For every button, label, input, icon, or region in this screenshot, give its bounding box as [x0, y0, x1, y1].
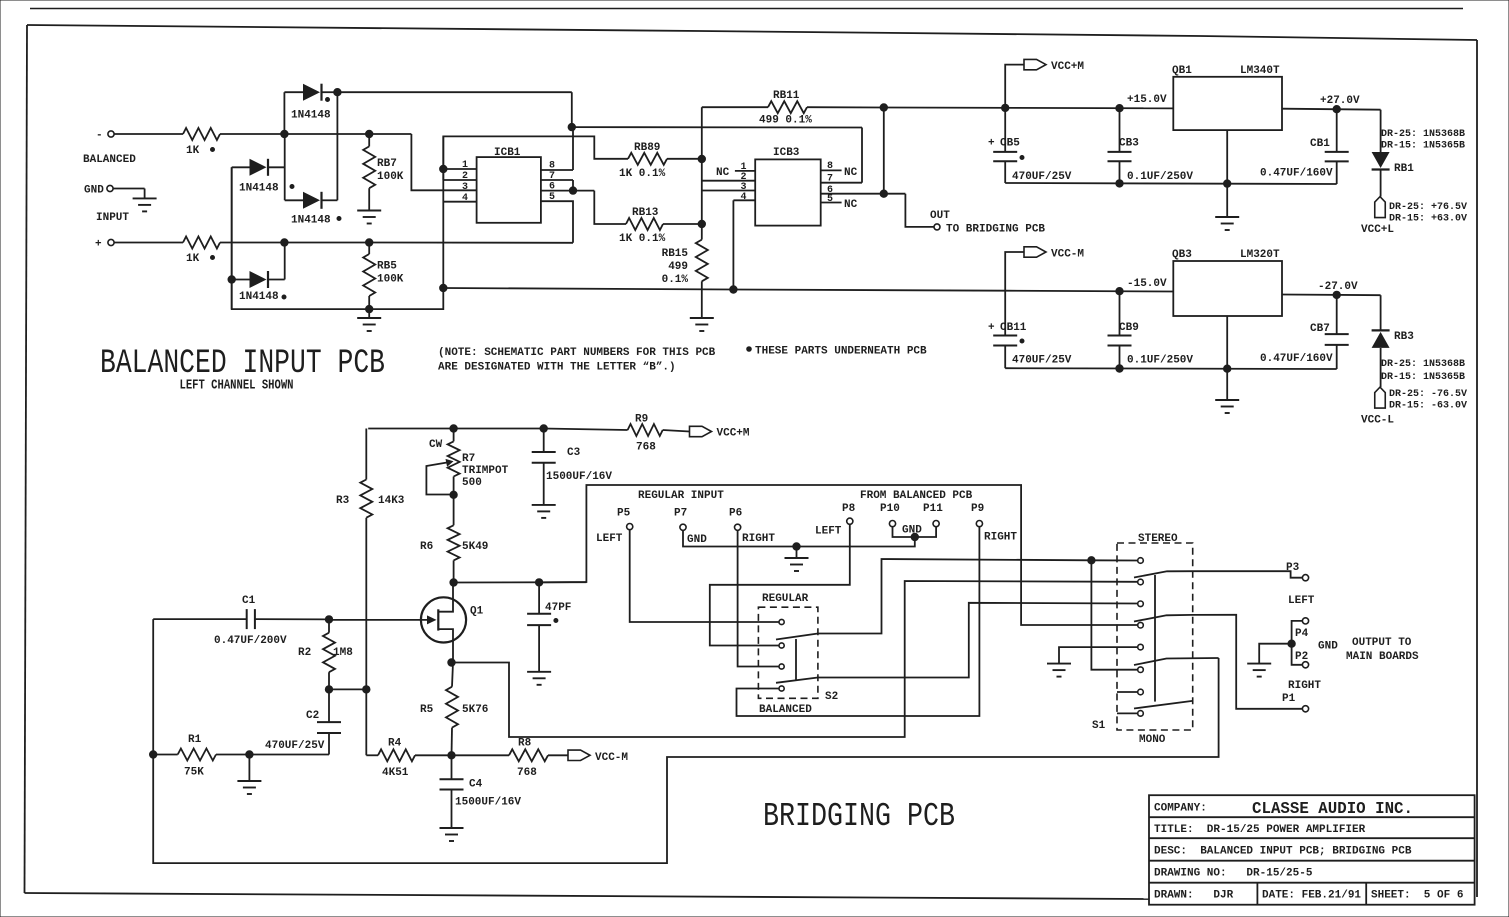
capacitor C4 1500UF/16V — [440, 755, 522, 828]
svg-text:C4: C4 — [469, 779, 483, 791]
svg-text:CB7: CB7 — [1310, 323, 1330, 335]
S1 contact 4 — [1138, 622, 1144, 628]
svg-text:R8: R8 — [518, 738, 532, 750]
ICB3 pin8 NC — [821, 161, 858, 179]
resistor 1K (minus input) — [183, 128, 220, 157]
svg-text:DR-15: +63.0V: DR-15: +63.0V — [1389, 214, 1467, 225]
ICB1 pin1 — [440, 160, 477, 173]
svg-text:5: 5 — [549, 192, 555, 203]
svg-text:TITLE: DR-15/25 POWER AMPLIFI: TITLE: DR-15/25 POWER AMPLIFIER — [1154, 824, 1366, 836]
svg-text:1N4148: 1N4148 — [291, 110, 331, 122]
ICB3 pin4 — [733, 192, 755, 203]
svg-text:THESE PARTS UNDERNEATH PCB: THESE PARTS UNDERNEATH PCB — [755, 346, 927, 358]
svg-text:-: - — [96, 130, 103, 142]
wire S1 arm2 to P3 — [1193, 571, 1303, 578]
wire feedback loop bottom — [153, 658, 1218, 863]
svg-text:STEREO: STEREO — [1138, 533, 1178, 545]
ground (input) — [133, 189, 157, 212]
svg-text:GND: GND — [687, 534, 707, 546]
plug P3 — [1286, 562, 1315, 607]
svg-text:1500UF/16V: 1500UF/16V — [546, 471, 612, 483]
svg-text:0.1UF/250V: 0.1UF/250V — [1127, 355, 1193, 367]
svg-text:R9: R9 — [635, 414, 648, 426]
wire - input to diodes — [220, 130, 411, 137]
svg-text:GND: GND — [84, 185, 104, 197]
wire to ICB1 pin3 — [411, 134, 476, 190]
svg-text:P6: P6 — [729, 508, 742, 520]
svg-text:470UF/25V: 470UF/25V — [1012, 171, 1072, 183]
svg-text:5K76: 5K76 — [462, 704, 488, 716]
svg-text:RB1: RB1 — [1394, 163, 1414, 175]
title block frame — [1149, 795, 1475, 905]
capacitor CB5 470UF/25V — [988, 108, 1072, 183]
resistor R8 768 — [452, 738, 569, 780]
svg-text:ARE DESIGNATED WITH THE LETTER: ARE DESIGNATED WITH THE LETTER “B”.) — [438, 362, 676, 374]
wire + input — [114, 242, 183, 244]
svg-text:NC: NC — [716, 167, 730, 179]
S1 contact7 stub — [1117, 691, 1138, 693]
svg-text:RB3: RB3 — [1394, 331, 1414, 343]
wire C1 left leg — [152, 619, 154, 754]
svg-text:+: + — [988, 138, 995, 150]
svg-text:FROM BALANCED PCB: FROM BALANCED PCB — [860, 490, 973, 502]
ICB3 pin6 — [821, 185, 906, 197]
ground (RB5) — [357, 318, 381, 331]
resistor RB89 1K 0.1% — [619, 142, 706, 180]
switch S2 box — [758, 593, 838, 716]
transistor Q1 — [421, 583, 484, 663]
svg-text:VCC+L: VCC+L — [1361, 224, 1394, 236]
svg-text:OUTPUT TO: OUTPUT TO — [1352, 637, 1412, 649]
op-amp ICB3 — [755, 147, 821, 226]
ground (RB7) — [357, 188, 381, 223]
S2 arm balanced — [776, 678, 818, 683]
svg-text:0.47UF/160V: 0.47UF/160V — [1260, 168, 1333, 180]
wire D1 cathode to column — [337, 92, 571, 200]
trimpot R7 500 — [426, 429, 508, 499]
svg-text:P2: P2 — [1295, 651, 1308, 663]
svg-text:4: 4 — [462, 193, 468, 204]
svg-text:5K49: 5K49 — [462, 541, 488, 553]
svg-text:ICB3: ICB3 — [773, 147, 800, 159]
title block desc — [1154, 846, 1412, 858]
svg-text:RB13: RB13 — [632, 207, 659, 219]
wire R2-R3 tie — [325, 686, 370, 693]
S1 contact 3 — [1138, 601, 1144, 607]
svg-text:500: 500 — [462, 477, 482, 489]
svg-text:2: 2 — [462, 171, 468, 182]
svg-text:NC: NC — [844, 199, 858, 211]
svg-text:P3: P3 — [1286, 562, 1300, 574]
title block drawing no — [1154, 868, 1313, 880]
svg-text:REGULAR: REGULAR — [762, 593, 809, 605]
svg-text:4K51: 4K51 — [382, 767, 409, 779]
wire supply1 bottom rail — [1005, 180, 1336, 188]
plug P6 — [729, 508, 775, 546]
ground (P7) — [785, 547, 809, 572]
svg-text:DRAWING NO: DR-15/25-5: DRAWING NO: DR-15/25-5 — [1154, 868, 1313, 880]
svg-text:C1: C1 — [242, 595, 256, 607]
svg-text:1K: 1K — [186, 253, 200, 265]
svg-text:P8: P8 — [842, 503, 856, 515]
svg-text:RB11: RB11 — [773, 90, 800, 102]
wire bus1 lower — [232, 136, 444, 309]
ground (output) — [1247, 664, 1271, 677]
ground (QB1) — [1215, 130, 1239, 230]
svg-text:DR-15: 1N5365B: DR-15: 1N5365B — [1381, 141, 1465, 152]
wire P7 gnd — [683, 530, 800, 550]
svg-text:+: + — [988, 322, 995, 334]
svg-text:LEFT: LEFT — [815, 526, 842, 538]
capacitor CB1 0.47UF/160V — [1260, 109, 1349, 184]
plug P4 — [1292, 618, 1309, 644]
svg-text:S2: S2 — [825, 691, 838, 703]
wire RB5 bottom / node bus1 — [366, 296, 373, 318]
wire +15 rail — [884, 104, 1174, 112]
wire top rail bridging — [368, 425, 627, 432]
svg-text:CW: CW — [429, 439, 443, 451]
wire D3 anode column — [284, 134, 286, 200]
sheet outer top line — [30, 8, 1463, 10]
svg-text:OUT: OUT — [930, 210, 950, 222]
svg-text:CB5: CB5 — [1000, 138, 1020, 150]
capacitor C2 470UF/25V — [265, 689, 341, 754]
ICB3 pin7 — [821, 128, 862, 185]
plug P10 — [880, 503, 900, 527]
wire P9 to S2 — [737, 527, 980, 716]
wire to ICB1 pin5 — [541, 201, 573, 243]
svg-text:RIGHT: RIGHT — [1288, 680, 1321, 692]
resistor R4 4K51 — [366, 689, 451, 779]
svg-text:P4: P4 — [1295, 628, 1309, 640]
ICB1 pin8 — [541, 127, 573, 171]
input + terminal — [95, 239, 114, 251]
S1 contact 7 — [1138, 689, 1144, 695]
svg-text:CB1: CB1 — [1310, 138, 1330, 150]
svg-text:-15.0V: -15.0V — [1127, 278, 1167, 290]
svg-text:1K: 1K — [186, 145, 200, 157]
resistor R2 1M8 — [298, 616, 353, 690]
regulator QB1 LM340T — [1172, 65, 1282, 130]
svg-text:100K: 100K — [377, 274, 404, 286]
S2 contact 1 — [779, 619, 784, 624]
wire RB11 to pin6 — [883, 108, 885, 194]
connector VCC+L — [1361, 170, 1394, 237]
capacitor 47PF — [527, 582, 571, 671]
svg-text:499: 499 — [668, 261, 688, 273]
ground (47PF) — [527, 672, 551, 685]
svg-text:499 0.1%: 499 0.1% — [759, 115, 812, 127]
svg-text:1K 0.1%: 1K 0.1% — [619, 168, 666, 180]
svg-text:LM340T: LM340T — [1240, 65, 1280, 77]
svg-text:0.47UF/200V: 0.47UF/200V — [214, 635, 287, 647]
title block drawn — [1154, 890, 1463, 902]
wire - input — [114, 133, 183, 135]
svg-text:COMPANY:: COMPANY: — [1154, 803, 1207, 815]
S2 contact 2 — [779, 643, 784, 648]
capacitor C3 1500UF/16V — [532, 429, 613, 505]
svg-text:MAIN BOARDS: MAIN BOARDS — [1346, 651, 1419, 663]
resistor RB13 1K 0.1% — [594, 191, 705, 245]
resistor R6 5K49 — [420, 495, 488, 583]
svg-text:(NOTE: SCHEMATIC PART NUMBERS: (NOTE: SCHEMATIC PART NUMBERS FOR THIS P… — [438, 347, 716, 359]
wire + input run — [220, 239, 573, 246]
node R4/R5/C4/R8 — [448, 752, 455, 759]
ICB1 pin7 — [541, 171, 573, 191]
svg-text:TRIMPOT: TRIMPOT — [462, 465, 509, 477]
S1 contact 8 — [1138, 711, 1144, 717]
svg-text:DRAWN: DJR: DRAWN: DJR — [1154, 890, 1234, 902]
svg-text:R6: R6 — [420, 541, 433, 553]
title BALANCED INPUT PCB — [100, 345, 385, 383]
svg-text:DR-25: +76.5V: DR-25: +76.5V — [1389, 202, 1467, 213]
svg-text:RIGHT: RIGHT — [984, 532, 1017, 544]
ICB3 pin1 NC — [716, 162, 755, 179]
label -15.0V — [1127, 278, 1167, 290]
svg-text:47PF: 47PF — [545, 602, 571, 614]
svg-text:DR-25: 1N5368B: DR-25: 1N5368B — [1381, 359, 1465, 370]
svg-text:DESC: BALANCED INPUT PCB; BRI: DESC: BALANCED INPUT PCB; BRIDGING PCB — [1154, 846, 1412, 858]
wire +27 rail — [1282, 106, 1381, 113]
wire S2 arm2 to S1 c1 — [818, 557, 1138, 634]
S1 inner link — [1154, 575, 1156, 702]
svg-text:8: 8 — [827, 161, 833, 172]
wire S1 arm4 to P1 — [1193, 615, 1303, 709]
svg-text:C2: C2 — [306, 710, 319, 722]
svg-text:VCC-M: VCC-M — [1051, 249, 1084, 261]
label +15.0V — [1127, 94, 1167, 106]
svg-text:RB15: RB15 — [662, 248, 689, 260]
connector tag VCC-M (R8) — [568, 750, 628, 764]
capacitor CB9 0.1UF/250V — [1108, 288, 1194, 369]
node bus2 dot — [440, 284, 447, 291]
svg-text:P5: P5 — [617, 508, 631, 520]
wire S2 arm4 to S1 c3 — [818, 603, 1138, 678]
svg-text:INPUT: INPUT — [96, 212, 129, 224]
ground (R1) — [237, 755, 261, 795]
ground (S1 c5) — [1047, 647, 1138, 677]
plug P7 — [674, 508, 707, 547]
svg-text:7: 7 — [549, 171, 555, 182]
connector tag VCC+M (R9) — [690, 426, 750, 439]
capacitor CB3 0.1UF/250V — [1108, 108, 1194, 183]
svg-text:1N4148: 1N4148 — [239, 183, 279, 195]
vertical x702 pin2 feed — [701, 159, 703, 224]
ICB1 pin4 — [443, 193, 476, 204]
svg-text:SHEET: 5 OF 6: SHEET: 5 OF 6 — [1371, 890, 1463, 902]
label CW — [429, 439, 443, 451]
resistor R5 5K76 — [420, 659, 488, 756]
wire Q1 drain node — [450, 579, 587, 587]
svg-text:S1: S1 — [1092, 720, 1106, 732]
diode D1 1N4148 top — [284, 84, 341, 134]
svg-text:P9: P9 — [971, 503, 984, 515]
S1 contact 2 — [1138, 579, 1144, 585]
svg-text:LEFT: LEFT — [1288, 595, 1315, 607]
svg-text:5: 5 — [827, 194, 833, 205]
svg-text:1: 1 — [462, 160, 468, 171]
S1 arm 6 — [1134, 658, 1219, 665]
svg-text:CB3: CB3 — [1119, 138, 1139, 150]
S2 contact 3 — [779, 664, 784, 669]
svg-text:1M8: 1M8 — [333, 647, 353, 659]
svg-text:RB7: RB7 — [377, 158, 397, 170]
svg-text:DR-15: 1N5365B: DR-15: 1N5365B — [1381, 372, 1465, 383]
svg-text:BALANCED: BALANCED — [83, 154, 136, 166]
svg-text:CB11: CB11 — [1000, 322, 1027, 334]
svg-text:REGULAR INPUT: REGULAR INPUT — [638, 490, 724, 502]
ICB3 pin3 — [702, 182, 755, 193]
svg-text:VCC+M: VCC+M — [717, 428, 750, 440]
wire regular-input box — [539, 485, 1137, 625]
svg-text:CB9: CB9 — [1119, 322, 1139, 334]
ICB1 pin5 — [549, 192, 555, 203]
svg-text:1K 0.1%: 1K 0.1% — [619, 233, 666, 245]
svg-text:0.1%: 0.1% — [662, 274, 689, 286]
plug P8 — [815, 503, 856, 538]
svg-text:CLASSE AUDIO INC.: CLASSE AUDIO INC. — [1252, 800, 1413, 819]
input - terminal — [96, 130, 114, 142]
S2 contact 4 — [779, 686, 784, 691]
svg-text:R7: R7 — [462, 453, 475, 465]
S1 contact 5 — [1138, 644, 1144, 650]
wire P8 to S2 — [710, 524, 850, 645]
S2 gang link — [795, 639, 797, 680]
wire R1 rail — [153, 754, 178, 756]
svg-text:Q1: Q1 — [470, 606, 484, 618]
svg-text:470UF/25V: 470UF/25V — [1012, 355, 1072, 367]
capacitor CB7 0.47UF/160V — [1260, 295, 1349, 369]
ground (C4) — [440, 828, 464, 841]
S1 contact8 stub — [1117, 712, 1138, 714]
labels RB3 types — [1381, 359, 1465, 383]
diode D2 1N4148 middle-left — [232, 159, 294, 195]
diode D3 1N4148 middle-right — [285, 192, 341, 227]
svg-text:VCC-M: VCC-M — [595, 752, 628, 764]
label REGULAR INPUT — [638, 490, 724, 502]
svg-text:1N4148: 1N4148 — [291, 215, 331, 227]
capacitor CB11 470UF/25V — [988, 291, 1072, 369]
wire ICB1 out top — [568, 123, 862, 130]
resistor RB11 499 0.1% — [702, 90, 888, 159]
note these parts underneath pcb — [747, 346, 927, 358]
svg-text:VCC+M: VCC+M — [1051, 61, 1084, 73]
diode RB3 — [1372, 295, 1415, 348]
svg-text:470UF/25V: 470UF/25V — [265, 740, 325, 752]
plug P9 — [971, 503, 1017, 544]
diode RB1 — [1372, 110, 1415, 175]
plug P5 — [596, 508, 633, 546]
svg-text:QB1: QB1 — [1172, 65, 1192, 77]
S1 contact 6 — [1138, 667, 1144, 673]
labels VCC+L voltages — [1389, 202, 1467, 225]
svg-text:75K: 75K — [184, 767, 204, 779]
wire ICB3 pin4 to bus2 — [730, 200, 737, 293]
op-amp ICB1 — [477, 147, 541, 223]
svg-text:BALANCED: BALANCED — [759, 704, 812, 716]
svg-text:P11: P11 — [923, 503, 943, 515]
svg-text:P10: P10 — [880, 503, 900, 515]
svg-text:RB89: RB89 — [634, 142, 660, 154]
node output gnd — [1259, 640, 1338, 664]
node OUT to bridging pcb — [905, 194, 1045, 236]
switch S1 box — [1092, 533, 1193, 746]
wire D2 anode column — [231, 167, 233, 309]
svg-text:VCC-L: VCC-L — [1361, 415, 1394, 427]
svg-text:1N4148: 1N4148 — [239, 291, 279, 303]
ground (QB3) — [1215, 316, 1239, 413]
svg-text:-27.0V: -27.0V — [1318, 281, 1358, 293]
svg-text:LM320T: LM320T — [1240, 249, 1280, 261]
label -27.0V — [1318, 281, 1358, 293]
wire ICB1 pin2 feed — [443, 136, 628, 180]
plug P1 — [1282, 680, 1321, 712]
wire supply2 bottom rail — [1005, 365, 1336, 373]
label INPUT — [96, 212, 129, 224]
svg-text:R1: R1 — [188, 734, 202, 746]
resistor R3 14K3 — [336, 429, 405, 690]
svg-text:+27.0V: +27.0V — [1320, 95, 1360, 107]
svg-text:768: 768 — [517, 767, 537, 779]
svg-text:DR-25: 1N5368B: DR-25: 1N5368B — [1381, 129, 1465, 140]
svg-text:P7: P7 — [674, 508, 687, 520]
svg-text:DR-25: -76.5V: DR-25: -76.5V — [1389, 389, 1467, 400]
svg-text:3: 3 — [462, 182, 468, 193]
ground (C3) — [532, 505, 556, 518]
title block title — [1154, 824, 1366, 836]
svg-text:R5: R5 — [420, 704, 434, 716]
svg-text:0.47UF/160V: 0.47UF/160V — [1260, 353, 1333, 365]
regulator QB3 LM320T — [1172, 249, 1282, 316]
S1 arm 8 — [1134, 701, 1193, 709]
S1 arm 2 — [1134, 571, 1193, 577]
wire P5 to S2 — [630, 530, 779, 622]
svg-text:14K3: 14K3 — [378, 495, 405, 507]
labels VCC-L voltages — [1389, 389, 1467, 412]
label +27.0V — [1320, 95, 1360, 107]
wire S1 c6 feed — [1091, 560, 1137, 669]
svg-text:DR-15: -63.0V: DR-15: -63.0V — [1389, 401, 1467, 412]
wire Q1 source to S1 — [453, 581, 1138, 737]
svg-text:MONO: MONO — [1139, 734, 1166, 746]
resistor R9 768 — [628, 414, 690, 454]
svg-text:R3: R3 — [336, 495, 350, 507]
resistor RB5 100K — [363, 243, 404, 297]
connector tag VCC-M (supply) — [1005, 247, 1084, 291]
label BALANCED — [83, 154, 136, 166]
svg-text:+15.0V: +15.0V — [1127, 94, 1167, 106]
svg-text:P1: P1 — [1282, 693, 1296, 705]
svg-text:8: 8 — [549, 161, 555, 172]
svg-text:ICB1: ICB1 — [494, 147, 521, 159]
label OUTPUT TO MAIN BOARDS — [1346, 637, 1419, 663]
svg-text:R4: R4 — [388, 738, 402, 750]
svg-text:RIGHT: RIGHT — [742, 533, 775, 545]
svg-text:100K: 100K — [377, 171, 404, 183]
svg-text:7: 7 — [827, 174, 833, 185]
resistor RB15 499 0.1% — [662, 224, 708, 286]
wire P6 to S2 — [738, 530, 779, 666]
resistor RB7 100K — [363, 134, 404, 188]
S2 arm regular — [776, 634, 818, 640]
ICB3 pin5 NC — [821, 194, 858, 211]
svg-text:RB5: RB5 — [377, 261, 397, 273]
connector VCC-L — [1361, 348, 1394, 427]
Q1 gate arrow — [329, 615, 437, 624]
wire D4 cathode up — [284, 243, 286, 280]
svg-text:6: 6 — [549, 182, 555, 193]
connector tag VCC+M (supply) — [1005, 59, 1084, 108]
